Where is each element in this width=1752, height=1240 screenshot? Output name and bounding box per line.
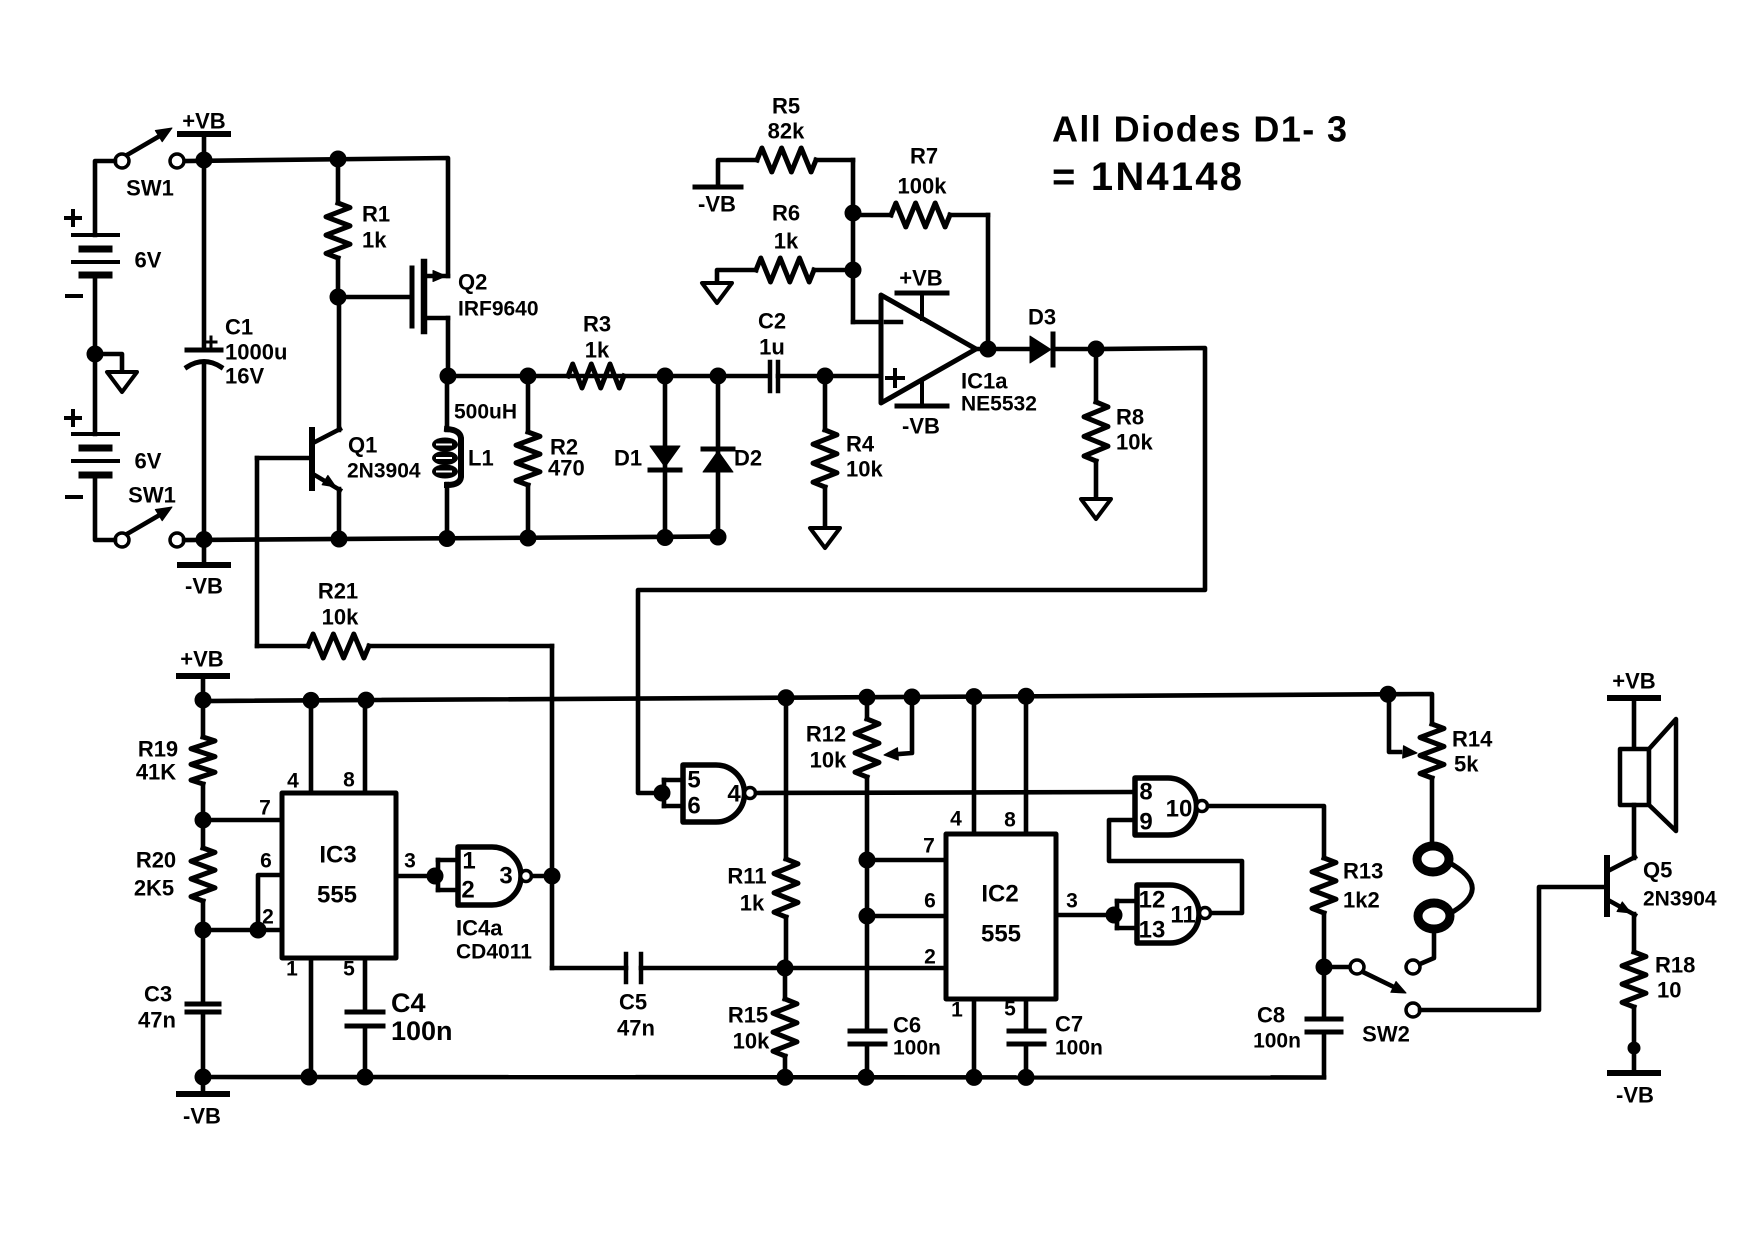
IC2 pin 1 (951, 999, 974, 1078)
svg-text:D3: D3 (1028, 305, 1056, 330)
svg-text:R12: R12 (806, 722, 846, 747)
svg-text:555: 555 (317, 882, 357, 909)
IC3 pin 7 (203, 797, 282, 821)
resistor R6 1k (717, 201, 853, 284)
svg-text:7: 7 (259, 797, 271, 820)
wire -VB rail (bottom section) (195, 1069, 1324, 1085)
svg-text:+VB: +VB (182, 109, 225, 134)
svg-text:+VB: +VB (899, 266, 942, 291)
svg-text:10k: 10k (733, 1029, 770, 1054)
svg-text:6V: 6V (135, 248, 162, 273)
gate IC4c (pins 8,9 -> 10) (1135, 778, 1208, 836)
svg-text:10: 10 (1166, 796, 1193, 823)
svg-text:2N3904: 2N3904 (347, 460, 421, 483)
svg-text:1k2: 1k2 (1343, 888, 1380, 913)
svg-text:3: 3 (1066, 890, 1078, 913)
switch SW2 (1331, 960, 1420, 1047)
svg-text:4: 4 (727, 781, 741, 808)
svg-text:10k: 10k (846, 457, 883, 482)
capacitor C2 1u (758, 309, 786, 392)
svg-text:C8: C8 (1257, 1003, 1285, 1028)
resistor R20 2K5 (134, 820, 215, 938)
svg-text:+VB: +VB (180, 647, 223, 672)
svg-text:5: 5 (1004, 998, 1016, 1021)
IC3 pin 1 (286, 958, 311, 1078)
headphones jack (1417, 846, 1472, 964)
svg-text:3: 3 (404, 850, 416, 873)
resistor R15 10k (728, 968, 797, 1077)
capacitor C5 47n (617, 954, 655, 1041)
svg-text:6V: 6V (135, 449, 162, 474)
svg-text:100n: 100n (1253, 1030, 1301, 1053)
capacitor C4 100n (347, 988, 453, 1077)
IC3 pin 6 (258, 850, 282, 931)
svg-text:C2: C2 (758, 309, 786, 334)
svg-text:-VB: -VB (1616, 1083, 1654, 1108)
power -VB (op-amp) (897, 380, 947, 439)
svg-text:6: 6 (924, 890, 936, 913)
svg-text:+VB: +VB (1612, 669, 1655, 694)
svg-text:5: 5 (343, 958, 355, 981)
svg-text:2: 2 (924, 946, 936, 969)
svg-text:1: 1 (951, 999, 963, 1022)
capacitor C1 1000u 16V (187, 160, 287, 539)
op-amp IC1a NE5532 (881, 295, 1037, 416)
wire +VB top rail (switch to Q2 source corner) (184, 151, 448, 276)
svg-text:C1: C1 (225, 315, 253, 340)
svg-text:5k: 5k (1454, 752, 1479, 777)
gate IC4a CD4011 (pins 1,2 -> 3) (427, 847, 552, 964)
wire -VB bottom rail (top section) (184, 529, 726, 548)
svg-text:R8: R8 (1116, 405, 1144, 430)
resistor R21 10k (257, 458, 552, 658)
svg-text:R6: R6 (772, 201, 800, 226)
svg-text:L1: L1 (468, 446, 494, 471)
svg-text:100n: 100n (1055, 1037, 1103, 1060)
wire gate IC4c output to R13 (1208, 806, 1324, 858)
resistor R11 1k (727, 698, 798, 968)
svg-text:10k: 10k (810, 748, 847, 773)
svg-text:2: 2 (461, 877, 474, 904)
svg-text:D1: D1 (614, 446, 642, 471)
diode D2 (703, 376, 762, 537)
IC2 pin 7 (867, 835, 946, 861)
svg-text:IC1a: IC1a (961, 369, 1008, 394)
IC3 pin 5 (343, 958, 365, 1011)
resistor R14 5k (1420, 724, 1493, 845)
resistor R3 1k (568, 312, 624, 389)
svg-text:8: 8 (1004, 809, 1016, 832)
svg-text:IC4a: IC4a (456, 916, 503, 941)
svg-text:R13: R13 (1343, 859, 1383, 884)
power -VB (at R5) (695, 187, 741, 217)
battery B2 6V (66, 411, 162, 497)
svg-text:R14: R14 (1452, 727, 1493, 752)
resistor R5 82k (718, 94, 853, 185)
svg-text:10k: 10k (1116, 430, 1153, 455)
wire +VB rail (bottom section) (195, 686, 1432, 724)
svg-text:470: 470 (548, 456, 585, 481)
svg-text:C3: C3 (144, 982, 172, 1007)
svg-text:10k: 10k (322, 605, 359, 630)
wire inverting input node (845, 160, 881, 322)
svg-text:2N3904: 2N3904 (1643, 888, 1717, 911)
resistor R8 10k (1084, 341, 1153, 499)
svg-text:-VB: -VB (902, 414, 940, 439)
wire op-amp output to R7 feedback (976, 215, 1030, 357)
IC2 pin 8 (1004, 696, 1026, 834)
wire oscillator output node (y=376) (440, 368, 881, 384)
svg-text:47n: 47n (138, 1008, 176, 1033)
svg-text:11: 11 (1170, 902, 1195, 929)
svg-text:Q2: Q2 (458, 270, 487, 295)
svg-text:R18: R18 (1655, 953, 1695, 978)
svg-text:6: 6 (260, 850, 272, 873)
wire R21/IC4a output node to C5 (544, 646, 626, 968)
svg-text:1u: 1u (759, 335, 785, 360)
ground (below R8) (1081, 499, 1111, 519)
IC3 pin 2 (203, 906, 282, 939)
IC2 pin 4 (950, 696, 974, 834)
ground (battery midpoint) (95, 354, 137, 392)
svg-text:4: 4 (287, 770, 299, 793)
svg-text:3: 3 (499, 863, 512, 890)
resistor R12 10k (preset) (806, 697, 879, 860)
svg-text:1k: 1k (740, 891, 765, 916)
IC2 pin 5 (1004, 998, 1026, 1032)
resistor R13 1k2 (1312, 858, 1383, 975)
svg-text:R19: R19 (138, 737, 178, 762)
svg-text:6: 6 (687, 793, 700, 820)
IC3 pin 3 wire (396, 850, 435, 877)
svg-text:IC3: IC3 (319, 842, 356, 869)
svg-text:R11: R11 (727, 864, 766, 889)
IC U2 555 (IC2) (946, 834, 1056, 999)
ground (below R4) (810, 528, 840, 548)
svg-text:12: 12 (1139, 887, 1166, 914)
power -VB (below R18) (1610, 1073, 1658, 1108)
power +VB (top left) (180, 109, 228, 162)
IC2 pin 3 wire (1056, 890, 1114, 916)
svg-text:1000u: 1000u (225, 340, 287, 365)
svg-text:16V: 16V (225, 364, 264, 389)
inductor L1 500uH (432, 376, 517, 539)
capacitor C7 100n (1009, 1012, 1103, 1078)
wire R12 to IC2 pins 7/6 and C6 (859, 852, 875, 1029)
R12 wiper arrow (884, 697, 912, 760)
svg-text:SW2: SW2 (1362, 1022, 1410, 1047)
svg-text:9: 9 (1139, 809, 1152, 836)
ground (at R6) (702, 283, 732, 303)
diode D1 (614, 376, 680, 538)
transistor Q2 IRF9640 (338, 262, 539, 376)
svg-text:4: 4 (950, 808, 962, 831)
svg-text:R4: R4 (846, 432, 875, 457)
wire gate IC4b output to gate IC4c pin 8 (756, 792, 1135, 793)
svg-text:1k: 1k (774, 229, 799, 254)
svg-text:C5: C5 (619, 990, 647, 1015)
svg-text:Q5: Q5 (1643, 858, 1672, 883)
svg-text:= 1N4148: = 1N4148 (1052, 155, 1244, 199)
svg-text:100k: 100k (898, 174, 948, 199)
gate IC4d (pins 12,13 -> 11) (1106, 885, 1211, 944)
IC2 pin 6 (867, 890, 946, 917)
power +VB (speaker) (1610, 669, 1658, 750)
IC3 pin 8 (343, 700, 365, 793)
gate IC4b (pins 5,6 -> 4) (654, 765, 756, 822)
resistor R18 10 (1622, 952, 1695, 1071)
svg-text:47n: 47n (617, 1016, 655, 1041)
power -VB (bottom left) (179, 1077, 227, 1129)
svg-text:R21: R21 (318, 579, 358, 604)
svg-text:500uH: 500uH (454, 401, 517, 424)
IC U3 555 (IC3) (282, 793, 396, 958)
power -VB (below C1) (180, 539, 228, 599)
svg-text:7: 7 (923, 835, 935, 858)
svg-text:1k: 1k (585, 338, 610, 363)
svg-text:R1: R1 (362, 202, 390, 227)
note All Diodes D1-3 = 1N4148 (1052, 109, 1348, 200)
resistor R7 100k (853, 144, 988, 228)
power +VB (bottom section) (179, 647, 227, 702)
svg-text:R3: R3 (583, 312, 611, 337)
svg-text:1: 1 (286, 958, 298, 981)
capacitor C6 100n (850, 1013, 941, 1078)
capacitor C8 100n (1253, 967, 1341, 1077)
resistor R1 1k (326, 159, 390, 305)
svg-text:555: 555 (981, 921, 1021, 948)
svg-text:D2: D2 (734, 446, 762, 471)
power +VB (op-amp) (897, 266, 947, 320)
svg-text:1k: 1k (362, 228, 387, 253)
switch SW1 (lower) (115, 483, 184, 548)
resistor R19 41K (136, 700, 215, 828)
wire battery junction node (87, 275, 103, 434)
IC3 pin 4 (287, 700, 311, 793)
wire SW2 to Q5 base (1420, 887, 1604, 1010)
svg-text:5: 5 (687, 767, 700, 794)
svg-text:8: 8 (1139, 779, 1152, 806)
resistor R4 10k (813, 376, 883, 528)
svg-text:C7: C7 (1055, 1012, 1083, 1037)
svg-text:R7: R7 (910, 144, 938, 169)
svg-text:-VB: -VB (183, 1104, 221, 1129)
svg-text:NE5532: NE5532 (961, 393, 1037, 416)
svg-text:All Diodes D1- 3: All Diodes D1- 3 (1052, 109, 1348, 150)
svg-text:R20: R20 (136, 848, 176, 873)
svg-text:R15: R15 (728, 1003, 768, 1028)
svg-text:SW1: SW1 (128, 483, 176, 508)
wire C5 to IC2 pin 2 (trigger line) (641, 960, 946, 976)
wire gate IC4c pin 9 to gate IC4d output (1109, 820, 1242, 913)
wire SW1 to battery B1 + (95, 161, 115, 235)
R14 wiper arrow (1389, 694, 1417, 758)
battery B1 6V (66, 211, 162, 296)
svg-text:10: 10 (1657, 978, 1681, 1003)
svg-text:100n: 100n (391, 1016, 453, 1046)
svg-text:13: 13 (1139, 917, 1166, 944)
svg-text:C4: C4 (391, 988, 426, 1018)
svg-text:IC2: IC2 (981, 881, 1018, 908)
svg-text:Q1: Q1 (348, 433, 377, 458)
diode D3 (1028, 305, 1096, 366)
svg-text:2: 2 (262, 906, 274, 929)
transistor Q1 2N3904 (257, 297, 421, 539)
resistor R2 470 (516, 376, 585, 538)
svg-text:C6: C6 (893, 1013, 921, 1038)
svg-text:2K5: 2K5 (134, 876, 174, 901)
svg-text:41K: 41K (136, 760, 176, 785)
wire battery B2 - to SW1 lower (95, 475, 115, 540)
svg-text:CD4011: CD4011 (456, 941, 532, 964)
transistor Q5 2N3904 (1607, 857, 1717, 952)
svg-text:8: 8 (343, 769, 355, 792)
svg-text:82k: 82k (768, 119, 805, 144)
svg-text:IRF9640: IRF9640 (458, 298, 539, 321)
svg-text:1: 1 (462, 848, 475, 875)
switch SW1 (upper) (115, 128, 184, 201)
IC2 pin 2 (924, 946, 936, 969)
svg-text:SW1: SW1 (126, 176, 174, 201)
svg-text:-VB: -VB (185, 574, 223, 599)
speaker LS1 (1620, 719, 1676, 858)
svg-text:R5: R5 (772, 94, 800, 119)
svg-text:-VB: -VB (698, 192, 736, 217)
wire detector output to gate IC4b input (638, 348, 1205, 793)
capacitor C3 47n (138, 930, 219, 1077)
svg-text:100n: 100n (893, 1037, 941, 1060)
